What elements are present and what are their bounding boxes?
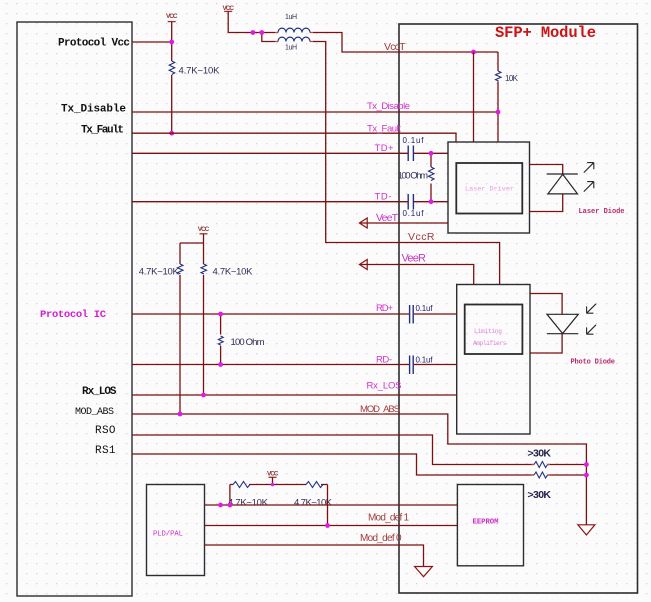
- svg-text:Limiting: Limiting: [474, 328, 502, 335]
- wire pullup branch: [180, 242, 204, 244]
- port arrow VeeR: [359, 260, 367, 270]
- svg-text:TD+: TD+: [375, 143, 394, 154]
- svg-text:PLD/PAL: PLD/PAL: [153, 531, 183, 539]
- capacitor C1 0.1uf: [408, 146, 413, 162]
- capacitor C2 0.1uf: [408, 194, 413, 210]
- resistor R7 >30K: [532, 464, 551, 466]
- laser diode D1: [530, 165, 563, 212]
- svg-text:VCC: VCC: [267, 471, 279, 478]
- wire Protocol Vcc: [132, 41, 172, 43]
- node branch junction A: [251, 30, 256, 35]
- wire Mod_def 2: [205, 504, 458, 506]
- resistor R4 100 Ohm: [218, 336, 223, 345]
- svg-text:0.1uf: 0.1uf: [416, 304, 434, 313]
- svg-text:RSO: RSO: [95, 425, 116, 437]
- svg-text:Protocol Vcc: Protocol Vcc: [58, 38, 130, 50]
- resistor R6 4.7K~10K: [201, 264, 207, 274]
- wire Tx_Fault: [132, 133, 456, 142]
- svg-text:SFP+ Module: SFP+ Module: [495, 24, 596, 42]
- svg-text:0.1uf: 0.1uf: [403, 209, 425, 218]
- Laser Driver box inner: [456, 163, 522, 214]
- wire VeeT: [360, 222, 448, 224]
- resistor R8 >30K: [532, 474, 551, 476]
- wire MOD_ABS: [132, 414, 586, 525]
- resistor R3 100 Ohm: [429, 167, 435, 181]
- node Tx_Fault junction: [169, 131, 174, 136]
- wire lower branch to L2: [262, 33, 500, 285]
- wire RSO: [132, 435, 586, 465]
- power VCC symbol 1: [168, 21, 176, 23]
- resistor R10 4.7K~10K: [306, 482, 323, 488]
- node TD+ junction: [429, 151, 434, 156]
- node R8 junction: [584, 473, 589, 478]
- node Rx_LOS junction: [201, 393, 206, 398]
- svg-text:VCC: VCC: [198, 226, 210, 233]
- svg-text:Laser Driver: Laser Driver: [465, 186, 514, 194]
- power VCC symbol 3: [200, 233, 208, 235]
- svg-text:4.7K~10K: 4.7K~10K: [139, 267, 180, 278]
- capacitor C3 0.1uf: [410, 305, 414, 324]
- wire TD+: [132, 152, 448, 154]
- wire pullup drop left: [229, 485, 231, 506]
- svg-text:Tx_Disable: Tx_Disable: [367, 101, 410, 112]
- resistor R2 10K: [496, 71, 502, 81]
- power VCC symbol 4: [269, 476, 277, 478]
- svg-text:VCC: VCC: [166, 13, 178, 20]
- power VCC symbol 2: [224, 10, 232, 12]
- wire Rx_LOS: [132, 394, 457, 396]
- svg-text:VeeR: VeeR: [402, 253, 427, 265]
- svg-text:1uH: 1uH: [285, 14, 297, 21]
- node Mod_def2 junction: [228, 503, 233, 508]
- svg-text:Tx_Fault: Tx_Fault: [81, 125, 124, 137]
- svg-text:VeeT: VeeT: [376, 212, 399, 224]
- svg-text:RD-: RD-: [376, 355, 392, 366]
- svg-text:Tx_Disable: Tx_Disable: [61, 104, 126, 116]
- node Protocol Vcc junction: [169, 40, 174, 45]
- svg-text:VccR: VccR: [408, 231, 435, 243]
- Limiting Amplifier box outer: [457, 285, 530, 435]
- node branch junction B: [259, 30, 264, 35]
- svg-text:RS1: RS1: [95, 445, 116, 457]
- node VccT junction: [471, 50, 476, 55]
- node VCC rail junction: [271, 483, 275, 487]
- wire TD termination: [430, 153, 432, 201]
- svg-text:VccT: VccT: [384, 41, 406, 53]
- node MOD_ABS junction: [178, 412, 183, 417]
- svg-text:TD-: TD-: [375, 192, 392, 203]
- capacitor C4 0.1uf: [410, 356, 414, 375]
- svg-text:RD+: RD+: [376, 303, 393, 314]
- photo diode D2: [530, 294, 562, 354]
- wire Mod_def 1: [205, 525, 458, 527]
- Laser Driver box outer: [448, 142, 530, 233]
- svg-text:Tx_Fault: Tx_Fault: [367, 124, 401, 135]
- EEPROM box: [457, 485, 523, 566]
- port arrow VeeT: [359, 218, 367, 228]
- node R7 junction: [584, 462, 589, 467]
- svg-text:0.1uf: 0.1uf: [403, 136, 425, 145]
- svg-text:100 Ohm: 100 Ohm: [231, 337, 265, 348]
- light arrows photo: [587, 304, 596, 334]
- Protocol IC box U1: [17, 22, 132, 596]
- resistor R1 4.7K~10K: [169, 61, 175, 74]
- svg-text:Mod_def 0: Mod_def 0: [360, 533, 402, 544]
- svg-text:Rx_LOS: Rx_LOS: [82, 386, 117, 398]
- wire VeeR: [360, 265, 474, 285]
- inductor L2 1uH: [275, 41, 313, 43]
- PLD/PAL box: [147, 485, 205, 576]
- wire 10K pullup: [497, 52, 499, 142]
- svg-text:Amplifiers: Amplifiers: [473, 340, 507, 347]
- resistor R5 4.7K~10K: [178, 264, 184, 274]
- wire pullup B: [203, 234, 205, 395]
- Limiting Amplifier box inner: [465, 305, 523, 355]
- svg-text:Photo Diode: Photo Diode: [571, 359, 616, 367]
- node TD- junction: [429, 199, 434, 204]
- svg-text:MOD_ABS: MOD_ABS: [360, 404, 400, 415]
- svg-text:>30K: >30K: [528, 448, 552, 460]
- node Mod_def2 net marker: [218, 503, 223, 508]
- wire pullup drop right: [327, 485, 329, 526]
- wire Mod_def 0: [205, 545, 424, 567]
- wire VCC4 stem: [272, 477, 274, 484]
- node Mod_def1 junction: [325, 523, 330, 528]
- wire RD-: [132, 364, 457, 366]
- wire pullup A: [179, 243, 181, 414]
- svg-text:4.7K~10K: 4.7K~10K: [213, 267, 254, 278]
- svg-text:VCC: VCC: [223, 5, 235, 12]
- svg-text:4.7K~10K: 4.7K~10K: [228, 498, 269, 509]
- ground GND2: [578, 525, 595, 535]
- svg-text:10K: 10K: [505, 74, 519, 83]
- svg-text:MOD_ABS: MOD_ABS: [75, 407, 114, 418]
- wire VCC2 to inductors: [228, 11, 498, 52]
- svg-text:EEPROM: EEPROM: [473, 519, 500, 527]
- svg-text:Mod_def 1: Mod_def 1: [368, 513, 409, 524]
- ground GND1: [415, 567, 433, 577]
- wire PLD pullup rail: [230, 484, 328, 486]
- inductor L1 1uH: [275, 32, 313, 34]
- SFP+ Module box: [399, 24, 638, 593]
- wire RD+: [132, 313, 457, 315]
- svg-text:100 Ohm: 100 Ohm: [398, 171, 429, 182]
- svg-text:0.1uf: 0.1uf: [416, 356, 434, 365]
- svg-text:>30K: >30K: [528, 489, 552, 501]
- wire TD-: [132, 201, 448, 203]
- wire RS1: [132, 454, 586, 475]
- svg-text:1uH: 1uH: [285, 45, 297, 52]
- svg-text:Rx_LOS: Rx_LOS: [367, 381, 402, 392]
- wire VCC1 stem: [171, 22, 173, 134]
- svg-text:Laser Diode: Laser Diode: [579, 208, 625, 216]
- node Tx_Disable junction: [496, 110, 501, 115]
- light arrows laser: [584, 163, 594, 192]
- node RD+ junction: [218, 312, 223, 317]
- wire Tx_Disable: [132, 111, 498, 113]
- resistor R9 4.7K~10K: [233, 482, 250, 488]
- wire RD termination: [220, 314, 222, 365]
- wire VccT drop to laser driver: [473, 52, 475, 142]
- node RD- junction: [218, 362, 223, 367]
- svg-text:4.7K~10K: 4.7K~10K: [179, 66, 221, 77]
- svg-text:Protocol IC: Protocol IC: [40, 309, 107, 321]
